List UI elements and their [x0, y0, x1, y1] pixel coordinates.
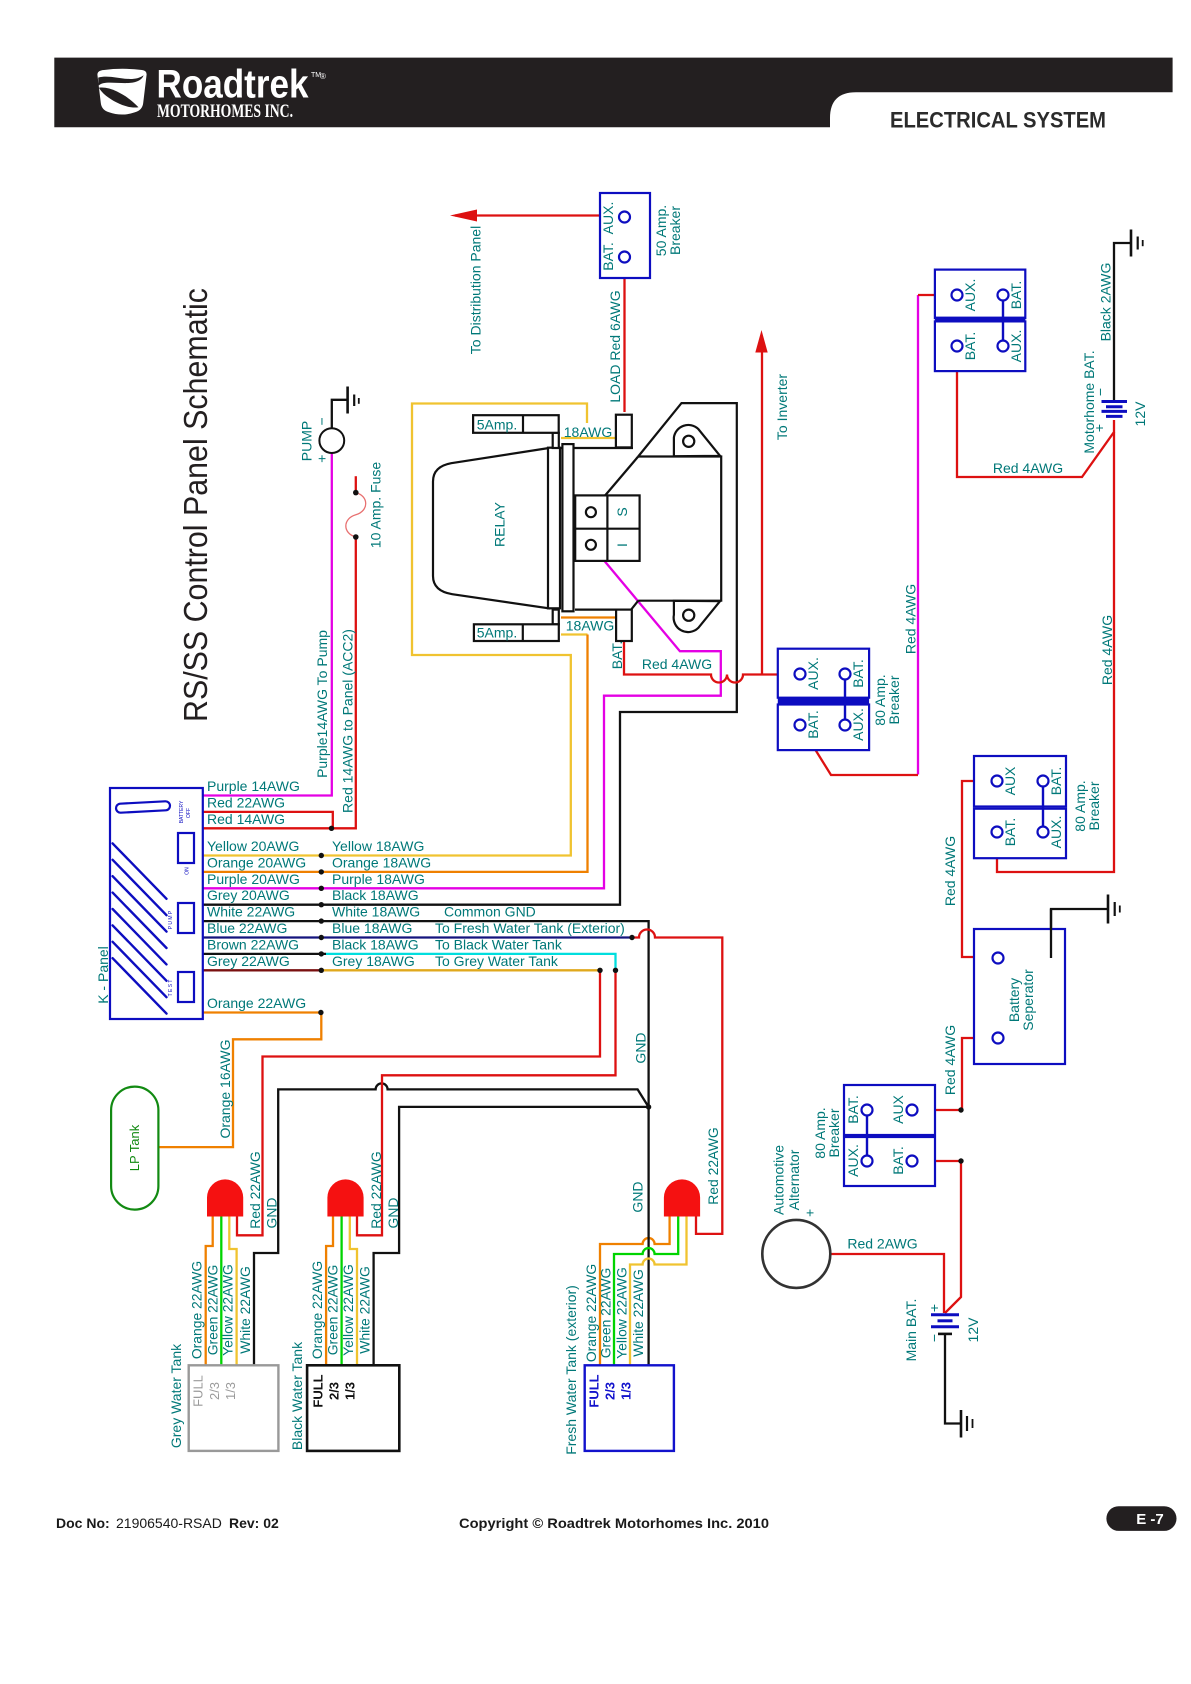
svg-text:−: −: [1092, 388, 1108, 396]
svg-text:12V: 12V: [965, 1317, 981, 1343]
svg-text:+: +: [802, 1209, 818, 1217]
svg-text:2/3: 2/3: [603, 1382, 618, 1400]
svg-text:18AWG: 18AWG: [566, 618, 615, 634]
svg-text:I: I: [614, 543, 630, 547]
svg-text:BAT.: BAT.: [600, 242, 616, 271]
svg-text:Red 22AWG: Red 22AWG: [207, 794, 285, 810]
svg-text:Red 22AWG: Red 22AWG: [247, 1151, 263, 1228]
svg-text:Grey 22AWG: Grey 22AWG: [207, 953, 290, 969]
svg-text:BAT.: BAT.: [1008, 281, 1024, 310]
svg-text:Roadtrek: Roadtrek: [157, 63, 310, 107]
svg-text:Red 4AWG: Red 4AWG: [1099, 615, 1115, 685]
svg-text:Grey 18AWG: Grey 18AWG: [332, 953, 415, 969]
svg-text:Yellow 20AWG: Yellow 20AWG: [207, 838, 299, 854]
svg-text:BAT.: BAT.: [609, 641, 625, 670]
svg-text:AUX: AUX: [890, 1094, 906, 1123]
svg-text:2/3: 2/3: [327, 1382, 342, 1400]
svg-text:Breaker: Breaker: [1086, 781, 1102, 830]
svg-text:BATTERY: BATTERY: [179, 800, 185, 823]
svg-text:Blue 18AWG: Blue 18AWG: [332, 920, 412, 936]
svg-text:BAT.: BAT.: [850, 659, 866, 688]
svg-text:Grey 20AWG: Grey 20AWG: [207, 887, 290, 903]
svg-text:+: +: [926, 1304, 942, 1312]
svg-text:Orange 22AWG: Orange 22AWG: [189, 1261, 205, 1359]
svg-text:BAT.: BAT.: [890, 1146, 906, 1175]
svg-text:AUX: AUX: [1002, 766, 1018, 795]
svg-text:Rev: 02: Rev: 02: [229, 1515, 279, 1531]
svg-text:Red 4AWG: Red 4AWG: [642, 656, 712, 672]
svg-text:FULL: FULL: [190, 1375, 205, 1407]
svg-text:Yellow 18AWG: Yellow 18AWG: [332, 838, 424, 854]
svg-text:1/3: 1/3: [619, 1382, 634, 1400]
svg-text:21906540-RSAD: 21906540-RSAD: [116, 1515, 222, 1531]
svg-text:FULL: FULL: [587, 1374, 602, 1407]
svg-text:Yellow 22AWG: Yellow 22AWG: [220, 1264, 236, 1356]
svg-text:OFF: OFF: [186, 808, 192, 818]
svg-text:BAT.: BAT.: [962, 332, 978, 361]
svg-text:S: S: [614, 507, 630, 516]
svg-text:Black 18AWG: Black 18AWG: [332, 887, 419, 903]
svg-text:18AWG: 18AWG: [564, 424, 613, 440]
svg-text:Yellow 22AWG: Yellow 22AWG: [340, 1264, 356, 1356]
svg-text:Red 4AWG: Red 4AWG: [942, 1025, 958, 1095]
svg-text:RS/SS Control Panel Schematic: RS/SS Control Panel Schematic: [177, 288, 214, 722]
svg-text:AUX.: AUX.: [805, 657, 821, 690]
svg-text:Green 22AWG: Green 22AWG: [598, 1268, 614, 1359]
svg-text:GND: GND: [264, 1198, 280, 1229]
svg-text:MOTORHOMES INC.: MOTORHOMES INC.: [157, 101, 293, 122]
svg-text:BAT.: BAT.: [1002, 818, 1018, 847]
svg-text:AUX.: AUX.: [1048, 816, 1064, 849]
svg-text:Green 22AWG: Green 22AWG: [325, 1265, 341, 1356]
svg-text:1/3: 1/3: [223, 1382, 238, 1400]
svg-text:AUX.: AUX.: [845, 1144, 861, 1177]
svg-text:T E S T: T E S T: [168, 980, 174, 997]
svg-text:Blue 22AWG: Blue 22AWG: [207, 920, 287, 936]
svg-text:White 22AWG: White 22AWG: [630, 1269, 646, 1356]
svg-text:10 Amp. Fuse: 10 Amp. Fuse: [368, 462, 384, 549]
svg-text:Red 22AWG: Red 22AWG: [705, 1127, 721, 1204]
svg-text:GND: GND: [633, 1032, 649, 1063]
svg-text:Red 14AWG: Red 14AWG: [207, 811, 285, 827]
svg-text:PUMP: PUMP: [299, 421, 315, 461]
svg-text:Alternator: Alternator: [786, 1149, 802, 1210]
svg-text:Red 14AWG to Panel (ACC2): Red 14AWG to Panel (ACC2): [340, 629, 356, 813]
svg-text:LP Tank: LP Tank: [127, 1124, 142, 1171]
svg-text:White 22AWG: White 22AWG: [207, 904, 295, 920]
svg-text:FULL: FULL: [311, 1374, 326, 1407]
svg-text:ELECTRICAL SYSTEM: ELECTRICAL SYSTEM: [890, 108, 1106, 133]
svg-text:Grey Water Tank: Grey Water Tank: [168, 1343, 184, 1448]
svg-text:Fresh Water Tank (exterior): Fresh Water Tank (exterior): [563, 1285, 579, 1455]
svg-text:Red 4AWG: Red 4AWG: [993, 460, 1063, 476]
svg-text:Purple 14AWG: Purple 14AWG: [207, 778, 300, 794]
svg-text:Common GND: Common GND: [444, 904, 536, 920]
svg-text:Purple 18AWG: Purple 18AWG: [332, 871, 425, 887]
svg-text:BAT.: BAT.: [845, 1095, 861, 1124]
svg-text:+: +: [314, 455, 330, 463]
svg-text:AUX.: AUX.: [962, 279, 978, 312]
svg-text:Orange 16AWG: Orange 16AWG: [217, 1039, 233, 1138]
svg-text:AUX.: AUX.: [1008, 330, 1024, 363]
svg-text:Green 22AWG: Green 22AWG: [204, 1265, 220, 1356]
svg-text:5Amp.: 5Amp.: [477, 417, 517, 433]
svg-text:BAT.: BAT.: [1048, 767, 1064, 796]
svg-text:Breaker: Breaker: [886, 675, 902, 724]
svg-text:Red 22AWG: Red 22AWG: [368, 1151, 384, 1228]
svg-text:White 18AWG: White 18AWG: [332, 904, 420, 920]
svg-text:Purple14AWG To Pump: Purple14AWG To Pump: [314, 630, 330, 778]
svg-text:AUX.: AUX.: [850, 708, 866, 741]
svg-text:Black 18AWG: Black 18AWG: [332, 936, 419, 952]
svg-text:Orange 20AWG: Orange 20AWG: [207, 854, 306, 870]
svg-text:White 22AWG: White 22AWG: [357, 1266, 373, 1353]
svg-text:GND: GND: [630, 1181, 646, 1212]
svg-text:Black 2AWG: Black 2AWG: [1098, 263, 1114, 342]
svg-text:GND: GND: [385, 1198, 401, 1229]
svg-text:ON: ON: [185, 867, 191, 875]
svg-text:To Fresh Water Tank (Exterior): To Fresh Water Tank (Exterior): [435, 920, 625, 936]
svg-text:Red 2AWG: Red 2AWG: [847, 1236, 917, 1252]
svg-text:To Grey Water Tank: To Grey Water Tank: [435, 953, 559, 969]
svg-text:Purple 20AWG: Purple 20AWG: [207, 871, 300, 887]
svg-text:BAT.: BAT.: [805, 710, 821, 739]
svg-text:To Black Water Tank: To Black Water Tank: [435, 936, 563, 952]
svg-text:Brown 22AWG: Brown 22AWG: [207, 936, 299, 952]
svg-text:1/3: 1/3: [343, 1382, 358, 1400]
svg-text:12V: 12V: [1132, 401, 1148, 427]
svg-text:Orange 22AWG: Orange 22AWG: [207, 995, 306, 1011]
svg-text:Copyright © Roadtrek Motorhome: Copyright © Roadtrek Motorhomes Inc. 201…: [459, 1515, 769, 1531]
svg-text:Seperator: Seperator: [1020, 969, 1036, 1031]
svg-text:RELAY: RELAY: [492, 501, 508, 547]
svg-text:To Inverter: To Inverter: [774, 374, 790, 440]
svg-text:AUX.: AUX.: [600, 202, 616, 235]
svg-text:Motorhome BAT.: Motorhome BAT.: [1081, 350, 1097, 453]
svg-text:Orange 18AWG: Orange 18AWG: [332, 854, 431, 870]
svg-text:−: −: [314, 417, 330, 425]
svg-text:To Distribution Panel: To Distribution Panel: [468, 226, 484, 354]
svg-text:E -7: E -7: [1136, 1511, 1164, 1528]
svg-text:Black Water Tank: Black Water Tank: [289, 1341, 305, 1450]
svg-text:®: ®: [320, 72, 326, 81]
svg-text:Main BAT.: Main BAT.: [903, 1299, 919, 1362]
svg-text:P U M P: P U M P: [168, 910, 174, 929]
svg-text:Red 4AWG: Red 4AWG: [903, 584, 919, 654]
svg-text:2/3: 2/3: [207, 1382, 222, 1400]
svg-text:White 22AWG: White 22AWG: [237, 1266, 253, 1353]
svg-text:Yellow 22AWG: Yellow 22AWG: [614, 1267, 630, 1359]
svg-text:Orange 22AWG: Orange 22AWG: [309, 1261, 325, 1359]
svg-text:Breaker: Breaker: [667, 206, 683, 255]
svg-text:5Amp.: 5Amp.: [477, 625, 517, 641]
svg-text:LOAD Red 6AWG: LOAD Red 6AWG: [607, 290, 623, 402]
svg-text:K - Panel: K - Panel: [95, 946, 111, 1004]
svg-text:Doc No:: Doc No:: [56, 1515, 110, 1531]
svg-text:Automotive: Automotive: [771, 1145, 787, 1215]
svg-text:+: +: [1091, 424, 1107, 432]
svg-text:−: −: [926, 1334, 942, 1342]
svg-text:Breaker: Breaker: [826, 1108, 842, 1157]
svg-text:Red 4AWG: Red 4AWG: [942, 836, 958, 906]
